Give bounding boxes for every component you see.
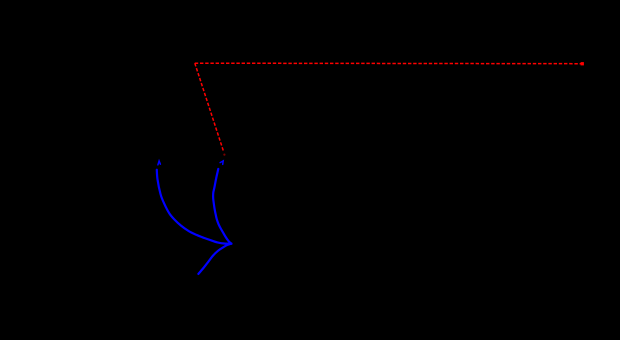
blue arrowhead left bbox=[158, 161, 161, 165]
blue tail curve bbox=[198, 244, 231, 274]
red dashed horizontal line bbox=[195, 62, 582, 65]
blue right curve bbox=[213, 169, 231, 244]
red dashed diagonal line bbox=[195, 63, 224, 152]
red dim end dot bbox=[223, 154, 225, 156]
blue arrowhead right bbox=[220, 161, 223, 165]
blue left curve bbox=[157, 170, 232, 244]
red square marker right end bbox=[581, 62, 584, 65]
